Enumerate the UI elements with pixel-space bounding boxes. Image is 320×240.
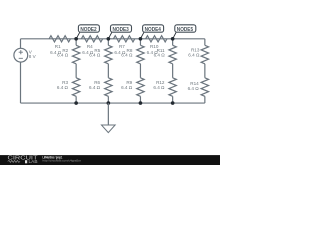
svg-text:6.4 Ω: 6.4 Ω	[57, 85, 69, 90]
wire bottom rail	[21, 102, 205, 104]
resistor R13 6.4ohm vertical upper	[188, 45, 208, 64]
svg-text:6.4 Ω: 6.4 Ω	[121, 85, 133, 90]
node NODE5 label flag	[173, 25, 196, 39]
resistor R2 6.4ohm vertical upper	[57, 45, 80, 64]
resistor R9 6.4ohm vertical lower	[121, 78, 144, 97]
svg-text:8 V: 8 V	[29, 54, 37, 59]
svg-text:6.4 Ω: 6.4 Ω	[57, 52, 69, 57]
wire column x=76.15	[75, 39, 77, 46]
wire left column above source	[20, 39, 22, 49]
svg-text:NODE3: NODE3	[113, 27, 129, 33]
svg-text:6.4 Ω: 6.4 Ω	[121, 52, 133, 57]
resistor R14 6.4ohm vertical lower	[188, 78, 209, 97]
svg-text:6.4 Ω: 6.4 Ω	[188, 86, 200, 91]
CircuitLab logo resistor squiggle	[8, 160, 20, 162]
svg-text:LAB: LAB	[29, 159, 38, 164]
junction dot bottom of column x=76.15	[74, 101, 78, 105]
junction dot top of column x=140.45	[139, 37, 143, 41]
resistor R11 6.4ohm vertical upper	[154, 45, 177, 64]
resistor R5 6.4ohm vertical upper	[89, 45, 112, 64]
junction dot top of column x=108.35	[107, 37, 111, 41]
wire column x=140.45	[139, 39, 141, 46]
wire column x=108.35	[107, 39, 109, 46]
junction dot top of column x=76.15	[74, 37, 78, 41]
node NODE4 label flag	[140, 25, 163, 39]
svg-text:6.4 Ω: 6.4 Ω	[89, 85, 101, 90]
node NODE3 label flag	[108, 25, 131, 39]
resistor R12 6.4ohm vertical lower	[153, 78, 176, 97]
wire right column segments	[204, 39, 206, 46]
wire left column below source	[20, 62, 22, 103]
resistor R1 6.4ohm horizontal	[49, 36, 70, 56]
svg-text:R1: R1	[55, 44, 61, 49]
resistor R3 6.4ohm vertical lower	[57, 78, 80, 97]
svg-text:6.4 Ω: 6.4 Ω	[89, 52, 101, 57]
ground symbol	[101, 103, 115, 133]
resistor R10 6.4ohm horizontal	[146, 36, 167, 56]
footer black bar	[0, 155, 220, 165]
resistor R8 6.4ohm vertical upper	[121, 45, 144, 64]
svg-text:NODE4: NODE4	[145, 27, 161, 33]
resistor R4 6.4ohm horizontal	[81, 36, 102, 56]
wire column x=172.65	[172, 39, 174, 46]
svg-text:6.4 Ω: 6.4 Ω	[154, 52, 166, 57]
node NODE2 label flag	[76, 25, 99, 39]
svg-text:NODE2: NODE2	[80, 27, 96, 33]
svg-text:R4: R4	[87, 44, 93, 49]
junction dot bottom of column x=172.65	[171, 101, 175, 105]
svg-text:NODE5: NODE5	[177, 27, 193, 33]
junction dot bottom of column x=140.45	[139, 101, 143, 105]
resistor R7 6.4ohm horizontal	[113, 36, 134, 56]
svg-text:6.4 Ω: 6.4 Ω	[188, 52, 200, 57]
svg-text:http://circuitlab.com/c4qpa5zx: http://circuitlab.com/c4qpa5zx	[43, 159, 82, 163]
svg-text:6.4 Ω: 6.4 Ω	[153, 85, 165, 90]
resistor R6 6.4ohm vertical lower	[89, 78, 112, 97]
wire top rail	[21, 38, 205, 40]
junction dot bottom of column x=108.35	[107, 101, 111, 105]
CircuitLab logo plug block	[25, 160, 27, 163]
svg-text:R7: R7	[119, 44, 125, 49]
voltage source V 8V	[14, 48, 37, 62]
junction dot top of column x=172.65	[171, 37, 175, 41]
